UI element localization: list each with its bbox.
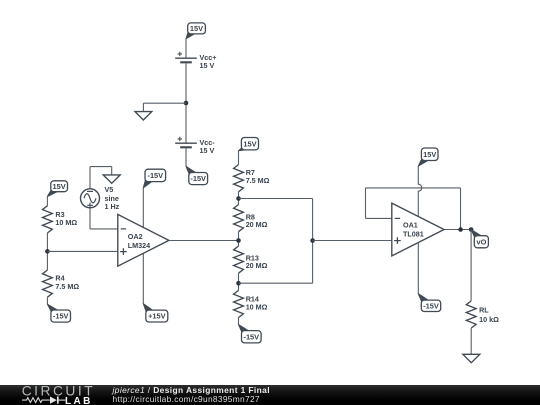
wire R13 to R14 — [238, 273, 240, 290]
wire R7 to R8 — [238, 192, 240, 205]
flag -15V (Vcc- net, power column) — [186, 166, 208, 184]
svg-text:20 MΩ: 20 MΩ — [246, 261, 268, 270]
node R7/R8 junction — [236, 196, 241, 201]
svg-text:15V: 15V — [53, 182, 66, 191]
resistor R3 10 MΩ — [43, 206, 78, 233]
flag -15V below R4 — [47, 304, 70, 322]
resistor R8 20 MΩ — [234, 205, 268, 232]
footer overlay — [0, 385, 540, 405]
svg-text:10 MΩ: 10 MΩ — [246, 302, 268, 311]
svg-text:TL081: TL081 — [403, 229, 424, 238]
wire R3 to R4 — [46, 233, 48, 270]
wire node to OA2 + input — [47, 250, 117, 252]
resistor R14 10 MΩ — [234, 290, 268, 317]
resistor R7 7.5 MΩ — [234, 165, 270, 192]
wire OA1 V- pin to -15V flag — [417, 243, 419, 294]
svg-text:LAB: LAB — [65, 395, 93, 405]
svg-text:7.5 MΩ: 7.5 MΩ — [246, 176, 270, 185]
svg-text:-15V: -15V — [147, 171, 163, 180]
wire flag to battery V1 — [185, 39, 187, 59]
svg-text:+15V: +15V — [148, 312, 166, 321]
wire R4 to -15V flag — [46, 297, 48, 304]
wire R14 to -15V flag — [238, 318, 240, 325]
resistor R4 7.5 MΩ — [43, 270, 80, 297]
svg-text:15V: 15V — [190, 24, 203, 33]
ground (supply midpoint) — [135, 112, 152, 120]
wire battery V1 to battery V2 — [185, 64, 187, 144]
wire to ground — [143, 102, 186, 104]
svg-text:OA2: OA2 — [128, 232, 143, 241]
wire RL to ground — [470, 328, 472, 354]
node right rail to OA1 — [310, 238, 315, 243]
svg-text:vO: vO — [476, 237, 486, 246]
wire OA2 output to divider midpoint — [169, 240, 239, 242]
flag 15V above R3 — [47, 181, 67, 197]
wire flag to R7 — [238, 151, 240, 165]
wire feedback OA1 output to - input — [366, 217, 392, 219]
flag 15V above R7 — [239, 138, 259, 151]
wire R8 to R13 — [238, 232, 240, 246]
junction ground tap — [184, 101, 189, 106]
op-amp OA1 TL081 — [392, 203, 444, 256]
svg-text:V5: V5 — [105, 185, 114, 194]
wire V5 to OA2 - input — [89, 208, 91, 229]
ground (V5 reference) — [103, 175, 120, 183]
wire OA2 V+ pin to +15V flag — [142, 253, 144, 304]
node R8/R13 midpoint (OA2 output) — [236, 238, 241, 243]
svg-text:15 V: 15 V — [200, 61, 215, 70]
node R3/R4 junction — [45, 249, 50, 254]
node feedback/output — [458, 227, 463, 232]
battery V2 Vcc- 15V — [175, 137, 215, 155]
flag vO output — [471, 230, 488, 248]
svg-text:15 V: 15 V — [200, 146, 215, 155]
svg-text:7.5 MΩ: 7.5 MΩ — [55, 282, 79, 291]
svg-text:15V: 15V — [423, 150, 436, 159]
flag 15V (Vcc+ net, top) — [186, 23, 205, 39]
svg-text:OA1: OA1 — [403, 221, 418, 230]
flag -15V above OA2 — [143, 169, 165, 188]
svg-text:-15V: -15V — [53, 312, 69, 321]
node R13/R14 junction — [236, 281, 241, 286]
svg-text:LM324: LM324 — [128, 241, 150, 250]
svg-text:10 kΩ: 10 kΩ — [479, 315, 499, 324]
flag -15V below R14 — [239, 325, 262, 343]
wire OA1 output — [444, 229, 471, 231]
wire V5 top to ground — [89, 167, 91, 189]
logo resistor symbol — [22, 397, 50, 402]
svg-text:1 Hz: 1 Hz — [105, 202, 120, 211]
wire flag to R3 — [46, 197, 48, 206]
wire -15V flag to OA2 V- pin — [142, 188, 144, 228]
op-amp OA2 LM324 — [118, 214, 169, 266]
svg-text:10 MΩ: 10 MΩ — [55, 218, 77, 227]
flag 15V above OA1 — [418, 148, 438, 166]
resistor RL 10 kΩ — [466, 301, 499, 328]
wire node R7/R8 to right rail — [239, 198, 313, 200]
logo diode symbol — [50, 396, 57, 403]
svg-text:-15V: -15V — [423, 301, 439, 310]
battery V1 Vcc+ 15V — [175, 52, 216, 70]
svg-text:20 MΩ: 20 MΩ — [246, 220, 268, 229]
flag -15V below OA1 — [418, 294, 440, 312]
ground (load return) — [463, 354, 480, 362]
wire output to RL — [470, 230, 472, 301]
wire right rail vertical — [312, 199, 314, 284]
wire battery V2 to -15V flag — [185, 149, 187, 167]
footer bar — [0, 385, 540, 405]
voltage source V5 sine 1 Hz — [81, 185, 120, 211]
svg-text:-15V: -15V — [190, 174, 206, 183]
wire 15V flag to OA1 V+ pin — [418, 166, 422, 216]
wire rail to OA1 + input — [313, 240, 392, 242]
resistor R13 20 MΩ — [234, 246, 268, 273]
node output corner — [469, 227, 474, 232]
svg-text:http://circuitlab.com/c9un8395: http://circuitlab.com/c9un8395mn727 — [113, 394, 260, 404]
svg-text:15V: 15V — [243, 139, 256, 148]
svg-text:-15V: -15V — [243, 332, 259, 341]
flag +15V below OA2 — [143, 304, 168, 322]
wire node R13/R14 to right rail — [239, 282, 313, 284]
svg-text:RL: RL — [479, 306, 489, 315]
